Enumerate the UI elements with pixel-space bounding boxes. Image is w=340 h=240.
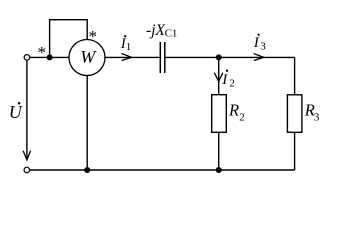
svg-text:2: 2: [239, 111, 245, 123]
svg-text:W: W: [80, 47, 97, 67]
svg-text:U: U: [9, 102, 23, 122]
svg-text:I: I: [253, 35, 260, 51]
svg-text:3: 3: [260, 41, 266, 53]
svg-text:2: 2: [229, 78, 235, 90]
svg-text:3: 3: [314, 111, 320, 123]
svg-text:I: I: [221, 72, 228, 88]
svg-text:-jX: -jX: [146, 22, 165, 39]
svg-text:*: *: [38, 43, 47, 62]
svg-text:C1: C1: [165, 28, 178, 40]
svg-text:1: 1: [126, 41, 132, 53]
svg-text:*: *: [88, 27, 97, 46]
svg-text:R: R: [228, 100, 239, 119]
